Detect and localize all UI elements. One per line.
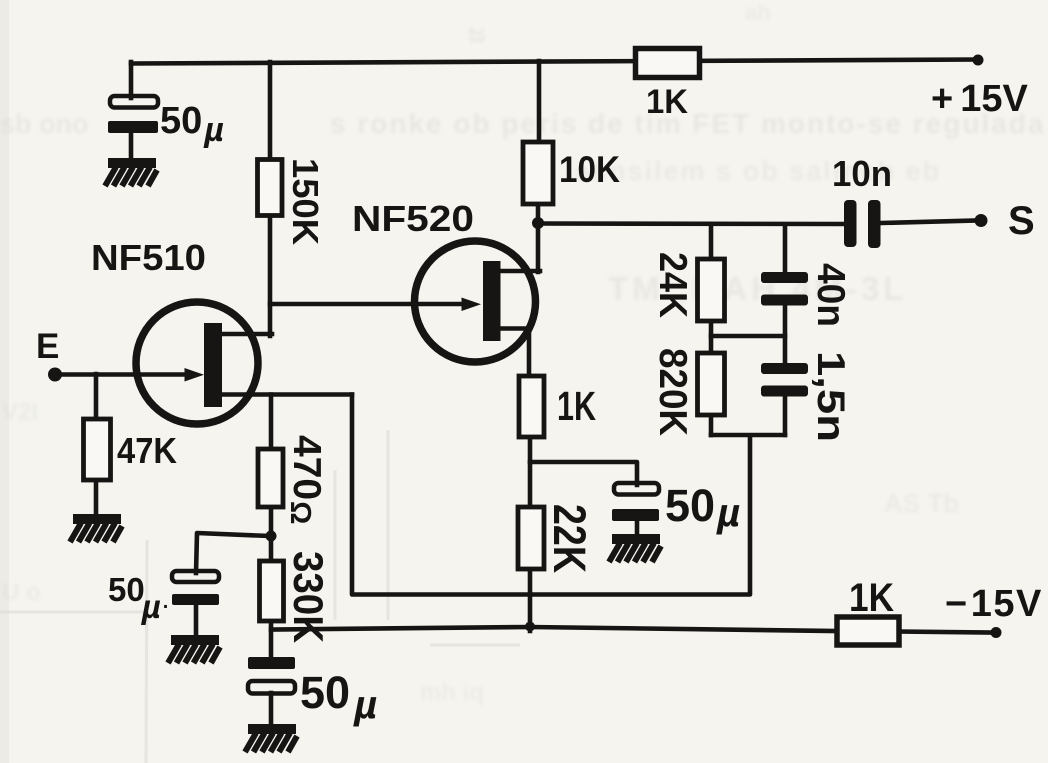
svg-text:1K: 1K	[646, 83, 688, 121]
svg-text:50µ.: 50µ.	[108, 571, 168, 625]
svg-text:ಜ: ಜ	[468, 18, 485, 48]
svg-text:50µ: 50µ	[160, 100, 224, 149]
svg-text:1,5n: 1,5n	[809, 351, 852, 442]
svg-text:50µ: 50µ	[300, 667, 377, 727]
svg-text:40n: 40n	[809, 263, 852, 327]
svg-text:1K: 1K	[849, 576, 894, 620]
svg-text:50µ: 50µ	[665, 480, 740, 535]
svg-text:330K: 330K	[285, 551, 332, 643]
svg-text:820K: 820K	[651, 348, 694, 436]
svg-text:1K: 1K	[557, 383, 596, 429]
svg-text:NF510: NF510	[91, 237, 206, 278]
svg-text:S: S	[1008, 199, 1035, 243]
svg-text:−15V: −15V	[945, 583, 1043, 625]
svg-text:sb ono: sb ono	[0, 109, 89, 139]
svg-text:V2I: V2I	[2, 399, 38, 426]
svg-text:10n: 10n	[832, 153, 892, 194]
svg-text:47K: 47K	[117, 430, 177, 471]
svg-text:NF520: NF520	[352, 198, 474, 239]
svg-text:mh iq: mh iq	[420, 679, 484, 706]
svg-text:AS Tb: AS Tb	[884, 488, 959, 518]
svg-text:U o: U o	[2, 579, 41, 606]
svg-text:+15V: +15V	[931, 78, 1028, 120]
svg-text:ah: ah	[745, 0, 771, 25]
svg-text:22K: 22K	[544, 504, 595, 573]
svg-text:24K: 24K	[651, 252, 694, 318]
svg-text:470Ω: 470Ω	[284, 435, 328, 524]
svg-text:10K: 10K	[559, 149, 620, 190]
svg-text:E: E	[36, 327, 59, 366]
svg-text:150K: 150K	[285, 158, 326, 245]
